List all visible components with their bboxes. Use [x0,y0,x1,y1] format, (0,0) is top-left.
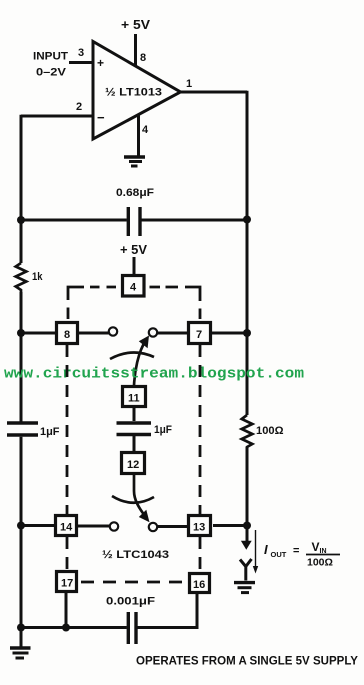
wire: left rail (1k down to 1uF cap) [20,292,23,422]
svg-text:OUT: OUT [271,550,287,559]
dashed boundary: box4 right to corner and down to box 7 [150,287,201,319]
junction: left rail / box 8 wire [17,329,25,337]
wire: right rail (100 ohm down to output arrow) [246,447,249,541]
op-amp U1 1/2 LT1013 [93,42,181,140]
ground (op-amp pin 4) [124,114,145,166]
svg-text:100Ω: 100Ω [256,425,284,437]
svg-text:14: 14 [60,522,73,534]
LTC1043 pin box 11 [123,387,146,407]
svg-text:3: 3 [78,47,84,59]
svg-text:1μF: 1μF [154,424,172,436]
svg-text:1: 1 [186,78,192,90]
svg-text:2: 2 [76,101,82,113]
svg-text:1μF: 1μF [40,426,60,438]
switch S2 contact b [149,523,157,531]
wire: box 8 to switch contact [79,332,109,335]
LTC1043 pin box 13 [189,516,211,536]
LTC1043 pin box 14 [56,516,77,536]
wire: box 17 down to bottom wire [65,593,68,628]
svg-text:1k: 1k [32,271,43,283]
svg-text:11: 11 [128,393,140,405]
dashed boundary: box 8 down to box 14 [66,345,69,514]
junction: left rail / 0.68uF wire [17,216,25,224]
switch S2 contact a [110,522,118,530]
switch S1 contact b [149,328,157,336]
svg-text:0.68μF: 0.68μF [116,187,154,199]
svg-text:−: − [97,110,105,125]
svg-text:www.circuitsstream.blogspot.co: www.circuitsstream.blogspot.com [4,366,304,383]
svg-text:16: 16 [193,579,205,591]
LTC1043 pin box 7 [189,323,211,344]
svg-text:=: = [293,545,299,557]
junction: right rail / box 13 wire [243,522,251,530]
switch S1 wiper with arrow [110,336,154,387]
wire: right rail (output down to 100 ohm) [246,91,249,415]
LTC1043 pin box 8 [57,323,78,344]
output current arrow (on right rail) [241,541,252,550]
LTC1043 pin box 17 [57,572,77,592]
svg-text:12: 12 [127,459,139,471]
svg-text:7: 7 [196,329,202,341]
wire: input to pin 3 [69,61,93,64]
IOUT current direction arrow [253,530,258,574]
LTC1043 pin box 4 [123,276,145,297]
wire: left rail to box 8 [21,332,55,335]
load symbol Y [240,559,252,581]
switch S2 wiper with arrow [112,475,154,522]
ground (bottom left) [10,628,31,659]
svg-text:I: I [264,542,268,557]
wire: flying cap to box 12 [133,436,136,452]
capacitor 0.68uF [21,187,247,236]
svg-text:13: 13 [193,522,205,534]
svg-text:0.001μF: 0.001μF [106,596,155,608]
svg-text:100Ω: 100Ω [307,557,333,569]
junction: left rail / box 14 wire [17,522,25,530]
wire: box 11 to flying cap [133,408,136,421]
svg-text:½ LTC1043: ½ LTC1043 [102,549,169,561]
svg-text:0–2V: 0–2V [36,67,67,79]
IOUT formula [264,540,340,569]
svg-text:8: 8 [64,329,70,341]
junction: right rail / box 7 wire [243,329,251,337]
resistor 100 ohm [242,415,284,448]
wire: box 13 to right rail [213,524,247,527]
svg-text:+ 5V: + 5V [121,18,151,32]
switch S1 contact a [109,327,117,335]
capacitor C1 1uF (left rail) [7,423,60,438]
resistor 1k [16,263,44,293]
svg-text:INPUT: INPUT [33,51,68,63]
dashed boundary: box 13 down to box 16 [199,537,202,572]
+5V supply (op-amp pin 8) [121,18,151,67]
dashed boundary: box4 left to corner and down to box 8 [68,287,116,319]
capacitor 0.001uF [21,594,197,644]
wire: op-amp output pin 1 to right rail [180,91,247,94]
svg-text:8: 8 [140,52,146,64]
wire: pin 2 to left rail [21,115,93,118]
wire: switch contact b to box 7 [158,332,188,335]
dashed boundary: box 17 to box 16 [81,581,188,584]
svg-text:4: 4 [142,124,149,136]
svg-text:+ 5V: + 5V [120,243,148,257]
svg-text:4: 4 [130,282,137,294]
svg-text:17: 17 [61,578,73,590]
capacitor 1uF (flying) [117,423,173,436]
junction: bottom wire / box 17 [62,624,70,632]
svg-text:OPERATES FROM A SINGLE 5V SUPP: OPERATES FROM A SINGLE 5V SUPPLY [136,656,358,668]
wire: box 7 to right rail [212,332,247,335]
ground (output load) [234,583,255,593]
LTC1043 pin box 16 [190,574,210,593]
wire: box 14 to switch contact [77,525,110,528]
+5V supply (LTC1043 pin 4) [120,243,148,275]
dashed boundary: box 7 down to box 13 [199,345,202,514]
svg-text:½ LT1013: ½ LT1013 [105,87,162,99]
dashed boundary: box 14 down to box 17 [66,537,69,570]
wire: switch contact b to box 13 [158,525,188,528]
junction: right rail / 0.68uF wire [243,216,251,224]
LTC1043 pin box 12 [122,453,145,474]
input label INPUT 0-2V [33,51,68,79]
wire: left rail (1uF down to box 14 junction) [20,437,23,628]
wire: left rail upper (pin2 corner down to 1k) [20,115,23,263]
svg-text:+: + [97,56,104,70]
svg-text:V: V [312,540,320,554]
wire: left rail to box 14 [21,524,54,527]
junction: bottom wire / left rail [17,624,25,632]
